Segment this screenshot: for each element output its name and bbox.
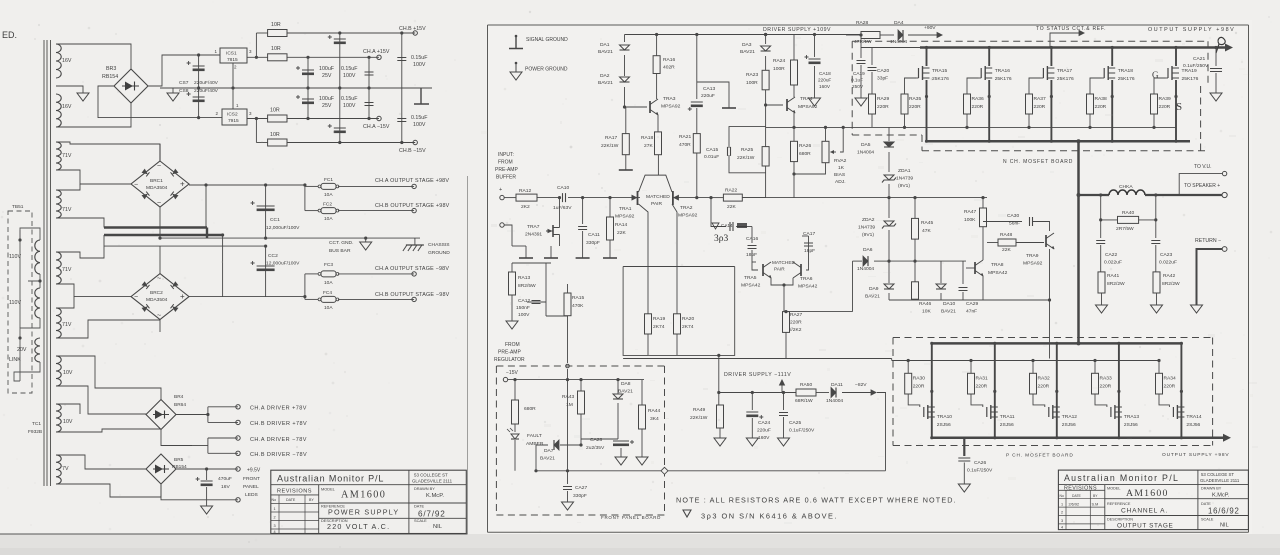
junction bbox=[558, 196, 561, 199]
junction bbox=[513, 378, 516, 381]
svg-text:7915: 7915 bbox=[228, 118, 239, 124]
wire bbox=[927, 140, 1191, 143]
thick +98V rail bbox=[920, 46, 1228, 49]
handwritten loop mark bbox=[1216, 37, 1225, 53]
wire right filter column bbox=[401, 33, 403, 143]
signal ground CA13 bbox=[722, 107, 736, 109]
wire RA43 bottom bbox=[580, 414, 582, 445]
svg-text:RA18: RA18 bbox=[641, 135, 654, 141]
svg-text:CA10: CA10 bbox=[557, 185, 570, 191]
svg-text:TO SPEAKER +: TO SPEAKER + bbox=[1184, 183, 1220, 189]
wire FC4 left bbox=[305, 298, 318, 300]
svg-text:25K176: 25K176 bbox=[1057, 76, 1074, 82]
transistor TRA2 MPSA92 (base bar) bbox=[672, 191, 674, 205]
svg-text:+9.5V: +9.5V bbox=[247, 468, 261, 474]
svg-text:LINK: LINK bbox=[9, 357, 21, 363]
svg-text:GLADESVILLE 2111: GLADESVILLE 2111 bbox=[412, 479, 453, 484]
svg-text:BRC2: BRC2 bbox=[150, 290, 163, 296]
svg-text:TRA16: TRA16 bbox=[995, 68, 1011, 74]
wire gate line left part bbox=[623, 358, 892, 360]
svg-text:TO STATUS CCT.& REF.: TO STATUS CCT.& REF. bbox=[1036, 26, 1106, 32]
resistor RA15 bbox=[564, 293, 571, 316]
wire CA24 bottom bbox=[751, 418, 753, 438]
svg-text:CA16: CA16 bbox=[746, 236, 759, 242]
winding 110V #1 bbox=[35, 240, 40, 274]
wire RA17 top bbox=[625, 107, 627, 134]
bridge rectifier BR3 bbox=[114, 69, 148, 103]
svg-text:10V: 10V bbox=[63, 419, 73, 425]
junction bbox=[534, 469, 537, 472]
svg-text:16V: 16V bbox=[62, 58, 72, 64]
wire RA39 to gate bbox=[1154, 78, 1166, 94]
thick source TRA15 bbox=[926, 80, 928, 141]
svg-text:DA8: DA8 bbox=[621, 381, 631, 387]
svg-text:N CH. MOSFET BOARD: N CH. MOSFET BOARD bbox=[1003, 159, 1073, 165]
wire BR5+ out bbox=[176, 468, 238, 470]
svg-text:2SJ56: 2SJ56 bbox=[1124, 422, 1138, 428]
capacitor CS7 bbox=[193, 65, 205, 67]
junction bbox=[338, 31, 341, 34]
resistor RA46 bbox=[912, 282, 919, 299]
wire CA24 top bbox=[751, 393, 753, 411]
diode DA11 1N4004 bbox=[831, 388, 836, 398]
resistor RA22 bbox=[723, 194, 742, 201]
svg-text:2/6/92: 2/6/92 bbox=[1069, 503, 1080, 507]
junction bbox=[205, 467, 208, 470]
svg-text:0.1uF/250V: 0.1uF/250V bbox=[967, 468, 993, 474]
svg-text:220R: 220R bbox=[909, 104, 921, 110]
svg-text:1N4004: 1N4004 bbox=[826, 398, 843, 404]
mosfet TRA11 2SJ56 bbox=[986, 407, 988, 417]
svg-text:FC4: FC4 bbox=[323, 290, 332, 296]
wire FC1 out bbox=[338, 185, 414, 187]
capacitor CA21 bbox=[1210, 69, 1222, 72]
wire bbox=[932, 436, 1225, 439]
svg-text:CH.A OUTPUT STAGE +98V: CH.A OUTPUT STAGE +98V bbox=[375, 178, 449, 184]
wire 71V3 top bbox=[56, 235, 104, 258]
svg-text:RA35: RA35 bbox=[909, 96, 922, 102]
wire CA22 to RA41 bbox=[1100, 245, 1102, 272]
diode DA3 bbox=[761, 46, 771, 51]
svg-text:−: − bbox=[134, 294, 138, 301]
svg-text:10A: 10A bbox=[324, 216, 333, 222]
wire RA29 bottom bbox=[871, 114, 873, 127]
svg-text:220 VOLT A.C.: 220 VOLT A.C. bbox=[327, 522, 390, 531]
junction bbox=[158, 237, 161, 240]
capacitor CA25 0.1uF bbox=[779, 413, 788, 416]
wire DA6 right bbox=[874, 260, 889, 262]
ground CA26 bbox=[958, 484, 970, 492]
ground RA41 bbox=[1096, 305, 1108, 313]
transistor TRA4 MPSA92 bbox=[786, 99, 788, 111]
wire stub bbox=[205, 185, 207, 228]
wire DA11 out bbox=[842, 392, 874, 394]
svg-text:BR4: BR4 bbox=[174, 394, 184, 400]
wire 71V4 bot to BRC2 bot bbox=[56, 320, 160, 338]
svg-text:TRA7: TRA7 bbox=[527, 224, 540, 230]
left title block lines bbox=[271, 470, 467, 534]
wire RVA2 wiper bbox=[840, 127, 843, 152]
svg-text:SIGNAL GROUND: SIGNAL GROUND bbox=[526, 37, 568, 43]
svg-text:F932B: F932B bbox=[28, 429, 42, 435]
svg-text:RA42: RA42 bbox=[1163, 273, 1176, 279]
svg-text:220R: 220R bbox=[1100, 384, 1112, 390]
base arrow TRA2 bbox=[673, 195, 679, 201]
wire emitter loop box bbox=[623, 267, 735, 356]
resistor RA18 bbox=[655, 132, 662, 155]
resistor RA39 220R bbox=[1151, 94, 1158, 114]
capacitor CA30 56nF bbox=[1030, 217, 1033, 226]
wire 10V1 to BR4 top bbox=[56, 356, 161, 400]
svg-text:68R/1W: 68R/1W bbox=[795, 398, 813, 404]
svg-text:CA28: CA28 bbox=[590, 437, 603, 443]
terminal CH.A DRIVER -78V bbox=[236, 436, 240, 440]
zener ZDA1 1N4739 bbox=[884, 175, 894, 180]
junction TRA12 top bbox=[1055, 342, 1058, 345]
svg-text:10A: 10A bbox=[324, 305, 333, 311]
resistor 10R #1 bbox=[268, 30, 287, 37]
resistor RA33 220R bbox=[1092, 373, 1099, 394]
wire FC3 out bbox=[338, 273, 414, 275]
bridge rectifier BRC2 bbox=[131, 274, 189, 320]
svg-text:56nF: 56nF bbox=[1009, 221, 1020, 227]
svg-text:AMBER: AMBER bbox=[526, 441, 544, 447]
svg-text:CCT. GND.: CCT. GND. bbox=[329, 240, 353, 246]
mosfet TRA19 2SK176 bbox=[1167, 68, 1169, 78]
thick column TRA13 bbox=[1118, 343, 1120, 437]
wire CA16 to TRA5 base bbox=[752, 250, 758, 270]
svg-text:DA4: DA4 bbox=[894, 20, 904, 26]
svg-text:2R7/5W: 2R7/5W bbox=[1116, 226, 1134, 232]
wire DA6 to RA27 row bbox=[852, 261, 854, 312]
svg-text:10K: 10K bbox=[922, 309, 931, 315]
wire driver- split v bbox=[207, 438, 209, 453]
junction bbox=[1174, 140, 1177, 143]
svg-text:100uF: 100uF bbox=[319, 66, 335, 72]
svg-text:220R: 220R bbox=[1034, 104, 1046, 110]
wire input- down bbox=[504, 225, 512, 246]
svg-text:CA21: CA21 bbox=[1193, 56, 1206, 62]
resistor RA20 bbox=[674, 314, 681, 334]
winding 10V #1 bbox=[56, 356, 61, 386]
signal ground TRA7 bbox=[544, 257, 558, 259]
mosfet TRA18 2SK176 bbox=[1103, 68, 1105, 78]
svg-text:2SJ56: 2SJ56 bbox=[1062, 422, 1076, 428]
svg-text:7815: 7815 bbox=[227, 57, 238, 63]
svg-text:−: − bbox=[134, 182, 138, 189]
wire CH.A driver +78 bbox=[208, 406, 238, 408]
svg-text:CC1: CC1 bbox=[270, 217, 280, 223]
svg-text:25V: 25V bbox=[322, 73, 332, 79]
svg-text:BY: BY bbox=[309, 498, 314, 502]
svg-text:CA12: CA12 bbox=[518, 298, 531, 304]
svg-text:CH.B −15V: CH.B −15V bbox=[399, 148, 426, 154]
svg-text:71V: 71V bbox=[62, 267, 72, 273]
wire FC3 left bbox=[305, 273, 318, 275]
svg-text:RA46: RA46 bbox=[919, 301, 932, 307]
wire DA9 top bbox=[888, 261, 890, 283]
wire 7V bot to BR5 bbox=[56, 484, 161, 497]
junction source bbox=[988, 95, 991, 98]
wire fuse feed - bbox=[304, 274, 306, 300]
svg-text:RETURN −: RETURN − bbox=[1195, 238, 1221, 244]
winding 71V #3 bbox=[56, 252, 61, 284]
svg-text:220R: 220R bbox=[1038, 384, 1050, 390]
wire CH.A -15 rail bbox=[287, 118, 379, 120]
resistor RA24 bbox=[791, 60, 798, 85]
junction TRA17 drain bbox=[1050, 46, 1053, 49]
svg-text:0.022uF: 0.022uF bbox=[1159, 260, 1177, 266]
svg-text:0.15uF: 0.15uF bbox=[341, 96, 358, 102]
svg-text:RA39: RA39 bbox=[1159, 96, 1172, 102]
junction bbox=[913, 196, 916, 199]
wire bbox=[963, 438, 965, 456]
wire RA37 to gate bbox=[1029, 78, 1041, 94]
junction bbox=[303, 295, 306, 298]
wire TRA2 emitter to RA20 bbox=[672, 204, 677, 314]
ground RA49 bbox=[714, 438, 726, 446]
wire RA13 top bbox=[511, 263, 513, 272]
wire RA26 to row bbox=[793, 174, 795, 198]
wire bias row right bbox=[742, 197, 987, 199]
wire RA33 gate bbox=[1095, 394, 1107, 407]
wire 71V4 top bbox=[56, 297, 74, 308]
wire to chassis gnd bbox=[414, 238, 416, 245]
junction bbox=[400, 141, 403, 144]
svg-text:0.022uF: 0.022uF bbox=[1104, 260, 1122, 266]
junction bbox=[784, 310, 787, 313]
resistor RA27 bbox=[783, 312, 790, 333]
thick drain TRA19 bbox=[1175, 48, 1177, 67]
junction bbox=[782, 391, 785, 394]
svg-text:TRA6: TRA6 bbox=[800, 276, 813, 282]
wire CA15 loop bottom bbox=[729, 155, 766, 173]
svg-text:0.15uF: 0.15uF bbox=[411, 115, 428, 121]
svg-text:(9V1): (9V1) bbox=[898, 183, 910, 189]
svg-text:FRONT: FRONT bbox=[243, 476, 260, 482]
svg-text:CH.A DRIVER +78V: CH.A DRIVER +78V bbox=[250, 406, 307, 412]
wire CA23 top bbox=[1155, 220, 1157, 238]
junction bbox=[608, 196, 611, 199]
wire 10V2 top bbox=[56, 404, 80, 414]
svg-text:CA29: CA29 bbox=[966, 301, 979, 307]
dashed box N CH MOSFET BOARD bbox=[852, 41, 1208, 151]
ground CA25 bbox=[778, 438, 790, 446]
wire input- gnd bbox=[512, 245, 526, 247]
junction TRA15 drain bbox=[925, 46, 928, 49]
capacitor CA22 0.022uF bbox=[1096, 241, 1105, 244]
junction TRA10 top bbox=[930, 342, 933, 345]
resistor RA21 bbox=[693, 134, 700, 153]
svg-text:MATCHED: MATCHED bbox=[772, 260, 795, 265]
wire driver+ split bbox=[207, 407, 209, 423]
wire 71V2 bot bbox=[56, 218, 104, 228]
svg-text:RA12: RA12 bbox=[519, 188, 532, 194]
svg-text:+: + bbox=[180, 180, 185, 189]
capacitor 100uF 25V (a) bbox=[302, 69, 314, 71]
wire CH.B driver +78 bbox=[208, 421, 238, 423]
wire RA26 top bbox=[793, 127, 795, 141]
svg-text:0.15uF: 0.15uF bbox=[411, 55, 428, 61]
svg-text:FC1: FC1 bbox=[324, 177, 333, 183]
junction bbox=[1055, 390, 1058, 393]
wire RA48 left bbox=[987, 242, 998, 244]
wire CA30 left bbox=[983, 221, 1022, 223]
right sheet border frame bbox=[488, 25, 1249, 532]
wire to driver- split bbox=[192, 445, 208, 447]
svg-text:OUTPUT SUPPLY +98V: OUTPUT SUPPLY +98V bbox=[1148, 27, 1235, 33]
wire 16V top to BR3 bbox=[56, 44, 131, 70]
ground cct gnd bbox=[360, 242, 372, 250]
junction bbox=[306, 86, 309, 89]
svg-text:470uF: 470uF bbox=[218, 476, 232, 482]
wire bbox=[104, 234, 223, 236]
svg-text:100R: 100R bbox=[746, 80, 758, 86]
terminal input+ bbox=[500, 195, 504, 199]
wire bbox=[206, 228, 208, 239]
wire CA18 bottom bbox=[814, 66, 816, 98]
ground CA19 bbox=[855, 98, 867, 106]
svg-text:BAV21: BAV21 bbox=[540, 456, 555, 462]
svg-text:FC3: FC3 bbox=[324, 262, 333, 268]
power ground legend symbol bbox=[515, 63, 517, 72]
arrow +90V bbox=[937, 32, 943, 38]
svg-text:MPSA92: MPSA92 bbox=[798, 104, 818, 110]
svg-text:RA22: RA22 bbox=[725, 188, 738, 194]
svg-text:8R2/2W: 8R2/2W bbox=[1162, 281, 1180, 287]
svg-text:CH.A −15V: CH.A −15V bbox=[363, 124, 390, 130]
svg-text:MPSA42: MPSA42 bbox=[741, 283, 761, 289]
wire CC2 column bbox=[265, 246, 267, 297]
svg-text:220uF: 220uF bbox=[757, 428, 771, 434]
svg-text:MPSA92: MPSA92 bbox=[661, 104, 681, 110]
junction bbox=[903, 126, 906, 129]
junction bbox=[221, 233, 224, 236]
wire bbox=[1077, 141, 1080, 195]
svg-text:NOTE : ALL RESISTORS ARE 0.6 W: NOTE : ALL RESISTORS ARE 0.6 WATT EXCEPT… bbox=[676, 496, 957, 505]
svg-text:~: ~ bbox=[157, 276, 161, 283]
svg-text:BAV21: BAV21 bbox=[618, 389, 633, 395]
resistor 10R #2 bbox=[268, 54, 287, 61]
wire CA17 to TRA6 base bbox=[806, 262, 809, 270]
junction bbox=[1152, 126, 1155, 129]
svg-text:No: No bbox=[272, 498, 277, 502]
svg-text:RA28: RA28 bbox=[856, 20, 869, 26]
svg-text:RA21: RA21 bbox=[679, 134, 692, 140]
junction bbox=[751, 391, 754, 394]
wire RA30 gate bbox=[908, 394, 920, 407]
junction bbox=[1117, 390, 1120, 393]
wire from TRA7 bbox=[512, 262, 551, 264]
svg-text:0.01uF: 0.01uF bbox=[704, 154, 719, 160]
svg-text:DA2: DA2 bbox=[600, 73, 610, 79]
mosfet TRA15 2SK176 bbox=[918, 68, 920, 78]
ground CA27 bbox=[562, 502, 574, 510]
wire 16V bot to BR3 bbox=[56, 102, 131, 127]
primary wiring bbox=[14, 228, 40, 381]
wire CA22 top bbox=[1100, 220, 1102, 238]
diode DA1 bbox=[620, 45, 630, 50]
capacitor CA14 bbox=[730, 222, 733, 231]
transistor TRA9 MPSA92 bbox=[1045, 235, 1047, 247]
junction bbox=[255, 56, 258, 59]
transistor TRA6 MPSA42 bbox=[800, 264, 802, 276]
junction bbox=[1088, 126, 1091, 129]
junction bbox=[655, 33, 658, 36]
diode DA6 1N4004 bbox=[863, 256, 868, 266]
svg-text:0.15uF: 0.15uF bbox=[341, 66, 358, 72]
wire DA3 top bbox=[765, 35, 767, 45]
junction bbox=[264, 237, 267, 240]
wire RA28 to DA4 bbox=[880, 34, 894, 36]
svg-text:−15V: −15V bbox=[506, 370, 518, 376]
svg-text:1M: 1M bbox=[566, 402, 573, 408]
capacitor CA17 18pF bbox=[804, 243, 813, 246]
svg-text:4: 4 bbox=[1061, 526, 1063, 530]
svg-text:RA24: RA24 bbox=[773, 58, 786, 64]
svg-text:GROUND: GROUND bbox=[428, 250, 450, 256]
terminal input- bbox=[500, 223, 504, 227]
winding 20V bbox=[35, 338, 40, 362]
wire RA45 bottom bbox=[914, 239, 916, 261]
wire bbox=[1197, 249, 1223, 305]
stub bbox=[962, 292, 964, 300]
svg-text:25K176: 25K176 bbox=[1182, 76, 1199, 82]
junction bbox=[988, 140, 991, 143]
svg-text:71V: 71V bbox=[62, 207, 72, 213]
fuse FC1 bbox=[321, 183, 336, 189]
svg-text:RB154: RB154 bbox=[102, 74, 118, 80]
terminal CH.A -98V bbox=[412, 272, 416, 276]
wire RA37 to bus bbox=[1028, 114, 1030, 127]
svg-text:220uF: 220uF bbox=[818, 78, 831, 83]
junction bbox=[859, 33, 862, 36]
svg-text:CHKA: CHKA bbox=[1119, 184, 1133, 190]
wire DA3 to RA23 bbox=[765, 56, 767, 70]
svg-text:AM1600: AM1600 bbox=[341, 490, 386, 501]
wire RA16 to TRA3 bbox=[656, 74, 658, 100]
junction bbox=[695, 196, 698, 199]
svg-text:DA1: DA1 bbox=[600, 42, 610, 48]
capacitor CA10 bbox=[563, 193, 566, 202]
thick drain TRA17 bbox=[1050, 48, 1052, 67]
junction bbox=[1050, 140, 1053, 143]
svg-text:FROM: FROM bbox=[498, 160, 513, 166]
wire BR3- to ICS2 bbox=[98, 86, 222, 118]
svg-text:TRA12: TRA12 bbox=[1062, 414, 1078, 420]
svg-text:16V: 16V bbox=[221, 484, 230, 490]
wire RA35 to bus bbox=[904, 114, 906, 127]
svg-text:RA15: RA15 bbox=[572, 295, 585, 301]
wire RA14 top bbox=[609, 198, 611, 217]
svg-text:RA45: RA45 bbox=[921, 220, 934, 226]
wire CA11 top bbox=[582, 198, 584, 224]
wire ZDA2 bottom bbox=[888, 230, 890, 261]
junction bbox=[1111, 140, 1114, 143]
capacitor CA18 220uF 160V bbox=[809, 58, 821, 60]
svg-text:FC2: FC2 bbox=[323, 202, 332, 208]
wire CHB filter column bbox=[339, 33, 341, 143]
transistor TRA3 MPSA92 bbox=[649, 101, 651, 113]
resistor RA23 bbox=[762, 70, 769, 90]
wire 71V2 top bbox=[56, 184, 80, 190]
resistor RA36 220R bbox=[964, 94, 971, 114]
wire 10R feed bottom bbox=[255, 119, 257, 143]
svg-text:71V: 71V bbox=[62, 153, 72, 159]
dashed box P CH MOSFET BOARD bbox=[893, 338, 1213, 446]
capacitor 0.15uF 100V (b) bbox=[365, 103, 374, 106]
svg-text:TRA18: TRA18 bbox=[1118, 68, 1134, 74]
